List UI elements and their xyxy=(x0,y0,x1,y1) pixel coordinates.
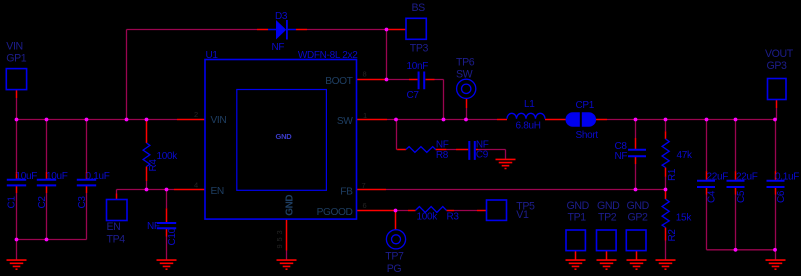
junction output cap GND rail / C6 xyxy=(773,248,777,252)
svg-text:GP2: GP2 xyxy=(628,212,649,224)
capacitor C5 plates xyxy=(727,181,745,187)
svg-text:TP4: TP4 xyxy=(107,234,126,246)
svg-text:TP6: TP6 xyxy=(456,57,475,69)
port square GND TP2 xyxy=(597,230,617,251)
pin stub R3 leads xyxy=(408,210,454,212)
svg-text:PG: PG xyxy=(387,263,402,275)
svg-text:VIN: VIN xyxy=(211,115,227,126)
capacitor C1 plates xyxy=(7,180,26,186)
svg-text:GND: GND xyxy=(284,195,295,216)
ground under C9 xyxy=(496,159,516,168)
junction VOUT rail / C6 and GP3 xyxy=(773,118,777,122)
svg-text:NF: NF xyxy=(615,151,628,162)
junction EN rail / C10 xyxy=(165,188,169,192)
capacitor C4 plates xyxy=(697,181,715,187)
svg-text:47k: 47k xyxy=(677,150,694,161)
svg-text:R4: R4 xyxy=(148,159,159,172)
svg-text:0.1uF: 0.1uF xyxy=(775,171,799,182)
pin stub C1 C2 C3 leads xyxy=(17,172,87,193)
capacitor C9 plates xyxy=(469,141,475,160)
svg-text:V1: V1 xyxy=(516,209,529,221)
svg-text:TP2: TP2 xyxy=(598,212,617,224)
svg-text:NF: NF xyxy=(436,140,449,151)
resistor R1 zigzag xyxy=(662,139,669,168)
pin stub R4 leads xyxy=(146,120,148,181)
junction SW pin / R8 branch xyxy=(394,118,398,122)
svg-text:BS: BS xyxy=(412,2,426,14)
svg-text:GND: GND xyxy=(275,132,292,141)
wire PGOOD net xyxy=(394,210,477,212)
pin stub VOUT port xyxy=(776,100,778,109)
pin stub EN port xyxy=(116,194,118,200)
wire BOOT net xyxy=(387,30,444,120)
svg-text:R1: R1 xyxy=(667,168,678,181)
U1 inner GND pad box xyxy=(237,90,327,191)
pin stub R2 leads xyxy=(665,190,667,241)
capacitor C2 plates xyxy=(37,180,56,186)
svg-text:C2: C2 xyxy=(37,196,48,209)
junction VIN rail / R4 xyxy=(145,118,149,122)
svg-text:VOUT: VOUT xyxy=(765,48,794,60)
svg-text:R8: R8 xyxy=(436,150,449,161)
pin stub D3 leads xyxy=(257,29,307,31)
ground under output caps xyxy=(766,260,786,269)
svg-text:15k: 15k xyxy=(676,213,693,224)
pin stub TP3 port xyxy=(389,29,407,31)
junction VOUT rail / C5 xyxy=(734,118,738,122)
junction GND rail / C2 xyxy=(45,238,49,242)
pin stub L1 leads xyxy=(497,119,566,121)
svg-text:NF: NF xyxy=(272,42,285,53)
junction node BOOT xyxy=(385,78,389,82)
svg-text:EN: EN xyxy=(211,186,224,197)
svg-text:NF: NF xyxy=(147,221,160,232)
svg-text:6.8uH: 6.8uH xyxy=(516,121,541,132)
junction VIN rail / C3 xyxy=(85,118,89,122)
svg-text:1: 1 xyxy=(363,111,367,120)
resistor R4 zigzag xyxy=(143,143,150,167)
svg-text:VIN: VIN xyxy=(6,41,22,53)
ground under GP2 xyxy=(627,260,647,269)
pin stub C10 leads xyxy=(166,208,168,236)
svg-text:EN: EN xyxy=(107,221,121,233)
ground under TP1 xyxy=(566,260,586,269)
junction GND rail / C1 xyxy=(15,238,19,242)
svg-text:100k: 100k xyxy=(157,151,179,162)
pin stub TP7 xyxy=(395,211,397,230)
svg-text:Short: Short xyxy=(576,130,599,141)
ground under TP2 xyxy=(597,260,617,269)
svg-text:C7: C7 xyxy=(407,90,420,101)
port square BS TP3 xyxy=(406,18,426,39)
port square TP5 V1 xyxy=(487,200,507,220)
svg-text:C9: C9 xyxy=(476,150,489,161)
junction VOUT rail / C8 xyxy=(634,118,638,122)
junction FB rail / C8 xyxy=(634,188,638,192)
svg-text:SW: SW xyxy=(456,69,473,81)
wire FB net xyxy=(386,190,666,260)
svg-text:D3: D3 xyxy=(275,11,288,22)
pin stub TP5 port xyxy=(477,210,487,212)
port square GND TP1 xyxy=(566,230,585,251)
junction VIN rail / C2 xyxy=(45,118,49,122)
svg-text:CP1: CP1 xyxy=(576,100,595,111)
pin stub CP1 right lead xyxy=(596,119,607,121)
wire VOUT net xyxy=(607,108,777,260)
capacitor C10 plates xyxy=(157,223,176,228)
svg-text:C5: C5 xyxy=(736,190,747,203)
wire SW net xyxy=(387,108,506,159)
svg-text:PGOOD: PGOOD xyxy=(317,207,353,218)
resistor R3 zigzag xyxy=(416,207,447,213)
pin stub R8 leads xyxy=(397,149,446,151)
svg-text:R2: R2 xyxy=(667,229,678,242)
svg-text:C3: C3 xyxy=(77,196,88,209)
svg-text:TP3: TP3 xyxy=(410,43,429,55)
svg-text:9: 9 xyxy=(275,244,284,248)
resistor R8 zigzag xyxy=(406,147,436,153)
svg-text:22uF: 22uF xyxy=(736,171,758,182)
pin stub U1 BOOT xyxy=(357,79,387,81)
pin stub U1 VIN xyxy=(177,119,205,121)
junction VOUT rail / R1 xyxy=(664,118,668,122)
svg-text:8: 8 xyxy=(363,70,367,79)
svg-text:100k: 100k xyxy=(417,212,439,223)
pin stub TP6 xyxy=(466,98,468,108)
svg-text:R3: R3 xyxy=(447,212,460,223)
svg-text:10uF: 10uF xyxy=(16,171,38,182)
capacitor C7 plates xyxy=(419,72,425,90)
svg-text:6: 6 xyxy=(363,201,367,210)
svg-text:10nF: 10nF xyxy=(407,61,429,72)
svg-text:FB: FB xyxy=(340,187,353,198)
pin stub VIN port xyxy=(16,90,18,98)
svg-text:GP1: GP1 xyxy=(6,53,27,65)
pin stub GND test points xyxy=(576,251,637,260)
pin stub C4 C5 C6 leads xyxy=(707,171,776,194)
wire VIN net rails xyxy=(17,30,387,260)
svg-text:U1: U1 xyxy=(206,50,219,61)
svg-text:WDFN-8L 2x2: WDFN-8L 2x2 xyxy=(298,50,358,61)
svg-text:TP1: TP1 xyxy=(568,212,587,224)
test point TP7 circle xyxy=(386,230,405,249)
svg-text:L1: L1 xyxy=(524,99,535,110)
ground under C1 rail xyxy=(7,260,27,269)
pin stub U1 GND pad xyxy=(286,219,288,251)
capacitor C3 plates xyxy=(77,180,96,186)
diode D3 xyxy=(268,20,296,40)
svg-text:GND: GND xyxy=(627,200,650,212)
pin stub U1 FB xyxy=(357,189,387,191)
svg-text:2: 2 xyxy=(194,110,198,119)
pin stub C7 leads xyxy=(409,79,435,81)
svg-text:0.1uF: 0.1uF xyxy=(86,171,110,182)
svg-text:5: 5 xyxy=(275,237,284,241)
junction output cap GND rail / C5 xyxy=(734,248,738,252)
jumper CP1 short xyxy=(566,112,597,127)
junction VIN rail / C1 xyxy=(15,118,19,122)
pin stub U1 SW xyxy=(357,119,388,121)
svg-text:4: 4 xyxy=(194,181,198,190)
resistor R2 zigzag xyxy=(662,199,669,228)
svg-text:3: 3 xyxy=(275,230,284,234)
svg-text:10uF: 10uF xyxy=(46,171,68,182)
svg-text:GND: GND xyxy=(567,200,590,212)
capacitor C6 plates xyxy=(767,181,785,187)
svg-text:22uF: 22uF xyxy=(707,171,729,182)
ground under U1 GND xyxy=(277,260,297,269)
svg-text:TP7: TP7 xyxy=(385,251,404,263)
svg-text:7: 7 xyxy=(362,181,366,190)
svg-text:C6: C6 xyxy=(776,190,787,203)
junction PGOOD / TP7 xyxy=(394,209,398,213)
svg-text:SW: SW xyxy=(337,116,353,127)
junction VOUT rail / C4 xyxy=(705,118,709,122)
port square VIN GP1 xyxy=(6,69,26,90)
pin stub C8 leads xyxy=(635,138,637,164)
op-amp U1 outer box xyxy=(205,60,357,220)
svg-text:C4: C4 xyxy=(707,190,718,203)
ground under C10 xyxy=(157,260,177,269)
pin stub U1 EN xyxy=(174,189,205,191)
svg-text:BOOT: BOOT xyxy=(325,76,352,87)
wire EN net xyxy=(117,181,175,260)
ground under R2 xyxy=(656,260,676,269)
junction SW rail / C7 branch xyxy=(442,118,446,122)
junction node BS xyxy=(385,28,389,32)
port square GND GP2 xyxy=(626,230,646,251)
port square EN TP4 xyxy=(107,200,128,221)
pin stub R1 leads xyxy=(665,131,667,177)
junction VIN rail / D3 loop xyxy=(125,118,129,122)
pin stub U1 PGOOD xyxy=(357,210,395,212)
test point TP6 circle xyxy=(457,79,476,98)
junction SW rail / TP6 xyxy=(464,118,468,122)
wire U1 GND stub xyxy=(286,251,288,260)
capacitor C8 plates xyxy=(628,150,646,157)
port square VOUT GP3 xyxy=(768,79,787,100)
svg-text:C10: C10 xyxy=(167,227,178,245)
pin stub C9 leads xyxy=(456,149,478,151)
svg-text:C1: C1 xyxy=(7,196,18,209)
junction FB rail / R1 R2 xyxy=(664,188,668,192)
svg-text:GND: GND xyxy=(597,200,620,212)
junction EN rail / R4 xyxy=(145,188,149,192)
svg-text:GP3: GP3 xyxy=(767,60,788,72)
inductor L1 coil xyxy=(507,113,545,119)
